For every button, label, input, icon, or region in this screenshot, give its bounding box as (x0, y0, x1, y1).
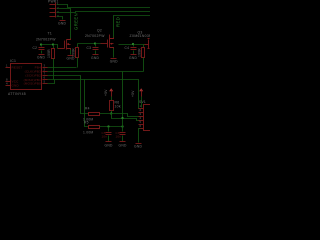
wire T1 source (70, 50, 72, 55)
wire SCK branch to ISP (122, 72, 124, 119)
wire pin4 to ground (57, 17, 63, 20)
svg-text:C2: C2 (33, 46, 38, 50)
svg-text:2N7002PW: 2N7002PW (85, 34, 105, 38)
node C6 junction (121, 125, 123, 127)
svg-text:GND: GND (12, 84, 20, 88)
ground GND6 (110, 59, 118, 64)
wire T1 gate net (42, 45, 58, 49)
svg-text:2N7002PW: 2N7002PW (36, 38, 56, 42)
svg-text:+5V: +5V (104, 89, 108, 96)
wire R6 row (100, 126, 123, 128)
transistor Q3 (130, 31, 152, 49)
svg-text:100R: 100R (47, 49, 51, 58)
node jog junction (121, 117, 123, 119)
ground GND7 (134, 144, 142, 149)
ground GND4 (91, 55, 99, 61)
svg-text:100R: 100R (72, 48, 76, 57)
svg-text:GND: GND (119, 143, 127, 147)
supply +5V arrow P2 (131, 88, 143, 107)
svg-text:10n: 10n (116, 135, 122, 139)
svg-text:GND: GND (37, 56, 45, 60)
node Q3 gate junction (132, 43, 134, 45)
svg-text:RED: RED (116, 17, 121, 27)
svg-text:GND: GND (91, 56, 99, 60)
svg-text:(MOSI)PB0: (MOSI)PB0 (24, 82, 41, 86)
svg-text:R5: R5 (84, 121, 89, 125)
svg-text:Q2: Q2 (97, 29, 102, 33)
resistor R3 (138, 45, 145, 72)
supply +5V arrow P1 (104, 88, 113, 96)
connector PWR1 (48, 0, 59, 18)
wire pin2 to GREEN vertical (57, 9, 71, 39)
wire pin1 to +V rail (57, 5, 151, 8)
svg-text:R4: R4 (85, 107, 90, 111)
wire IC pin PB4 rail (48, 67, 77, 69)
svg-text:ZXM61N03F: ZXM61N03F (130, 34, 151, 38)
svg-text:ATTINY45: ATTINY45 (8, 92, 26, 96)
node Q2 gate junction (94, 42, 96, 44)
wire jog to ISP pin4 (112, 114, 141, 121)
wire pin3 to rail2 (57, 12, 151, 13)
ground GND5 (129, 55, 137, 61)
wire MISO row to ISP (100, 114, 141, 117)
svg-text:GND: GND (134, 145, 142, 149)
svg-text:GREEN: GREEN (74, 13, 79, 30)
transistor T1 (36, 32, 71, 50)
svg-text:10n: 10n (102, 135, 108, 139)
svg-text:100R: 100R (138, 48, 142, 57)
svg-text:1.00M: 1.00M (83, 131, 93, 135)
svg-text:C3: C3 (87, 46, 92, 50)
capacitor C3 (87, 44, 99, 55)
svg-text:C4: C4 (125, 46, 130, 50)
svg-text:RESET: RESET (12, 66, 23, 70)
svg-text:+5V: +5V (131, 90, 135, 97)
svg-text:GND: GND (105, 143, 113, 147)
wire Q2 source (113, 49, 115, 58)
wire IC pin PB1 rail (48, 80, 141, 109)
resistor R1 (47, 45, 55, 80)
ground GND8 (105, 142, 113, 148)
wire PB1 branch to R6 (85, 80, 89, 127)
svg-text:T1: T1 (48, 32, 53, 36)
ground GND1 (58, 21, 66, 26)
svg-text:10k: 10k (115, 105, 121, 109)
wire Q2 gate net (78, 43, 101, 45)
connector SV1 ISP (139, 100, 152, 131)
capacitor C4 (125, 45, 137, 55)
wire ISP gnd (139, 129, 141, 143)
capacitor C5 (102, 127, 112, 142)
svg-text:GND: GND (129, 56, 137, 60)
resistor R2 (72, 44, 79, 68)
wire IC pin PB3 rail (48, 71, 144, 73)
capacitor C2 (33, 45, 45, 54)
IC1 ATTINY45 (6, 59, 48, 96)
node C5 junction (107, 125, 109, 127)
ground GND2 (37, 55, 45, 60)
capacitor C6 (116, 119, 126, 142)
ground GND3 (67, 56, 75, 61)
transistor Q2 (85, 29, 114, 49)
node C2 junction (40, 43, 42, 45)
wire IC pin PB2 branch down (48, 76, 89, 114)
svg-text:GND: GND (110, 60, 118, 64)
wire +5V to R4 (111, 97, 113, 101)
resistor R5 (83, 107, 100, 122)
node R4 bottom junction (110, 112, 112, 114)
wire Q3 gate net (119, 44, 145, 46)
svg-text:GND: GND (58, 22, 66, 26)
svg-text:IC1: IC1 (10, 59, 16, 63)
node R1 junction (52, 43, 54, 45)
resistor R6 (83, 121, 100, 135)
wire rail3 to Q2 drain (114, 16, 151, 38)
resistor R4 (110, 101, 121, 114)
ground GND9 (119, 142, 127, 148)
wire IC pin PB0 jog (48, 80, 55, 84)
